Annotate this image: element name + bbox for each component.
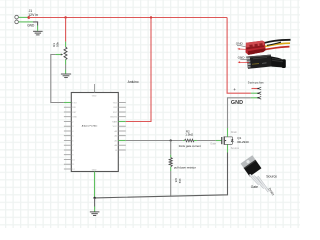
svg-text:GND: GND <box>92 169 97 171</box>
connector J2 3-pin pc fan pins <box>257 87 261 99</box>
right pin labels <box>110 102 118 152</box>
label R3 10k (rotated) <box>174 178 182 183</box>
node 12V junction dot <box>27 16 30 19</box>
label R1 50k (rotated) <box>52 41 60 46</box>
svg-text:RXI: RXI <box>72 107 76 109</box>
fan receptacle photo (black) <box>246 55 286 69</box>
left pin labels <box>72 102 77 171</box>
wire pot bottom to ground <box>65 60 67 65</box>
fan wires <box>263 40 291 43</box>
arrow red 1 <box>239 48 246 50</box>
svg-text:limits gate current: limits gate current <box>179 144 201 148</box>
drain lead <box>224 136 232 138</box>
label J1 / 12V in <box>28 9 38 17</box>
left pins <box>64 107 71 169</box>
svg-text:Gate: Gate <box>251 185 258 189</box>
wire pot wiper to Arduino A0 <box>51 55 64 103</box>
svg-text:GND: GND <box>238 55 246 59</box>
wire stub fan tach pin <box>252 88 258 90</box>
wire +12V rail <box>29 17 227 19</box>
svg-text:RST: RST <box>72 112 77 114</box>
svg-text:R3: R3 <box>174 178 178 182</box>
svg-text:GND: GND <box>27 24 35 28</box>
resistor R2 1.5k <box>183 139 197 142</box>
resistor R3 pull-down <box>169 141 172 197</box>
svg-text:GND: GND <box>236 41 244 45</box>
ground (pot) <box>61 74 71 78</box>
wire rail drop to fan + pin <box>227 18 251 94</box>
wire drain up to fan pin3 <box>227 128 229 137</box>
svg-text:10k: 10k <box>178 178 182 183</box>
svg-text:RAW: RAW <box>112 120 117 123</box>
gate bar <box>221 137 223 144</box>
svg-text:GND: GND <box>92 95 97 97</box>
right pins <box>118 103 126 151</box>
svg-text:RST: RST <box>113 112 118 114</box>
svg-text:GND: GND <box>231 100 243 106</box>
label Q1 IRL2940 <box>237 136 249 144</box>
wire RAW pin to rail (red) <box>118 121 126 123</box>
node rail-vcc junction <box>150 16 152 18</box>
svg-text:Source: Source <box>231 146 240 150</box>
svg-text:3-pin pc fan: 3-pin pc fan <box>248 81 264 85</box>
svg-text:+: + <box>233 87 236 92</box>
connector J1 (2-pin header) <box>15 15 19 23</box>
svg-text:GND: GND <box>72 117 77 119</box>
arrow red 2 <box>239 61 249 63</box>
label R2 1.5k <box>185 129 194 136</box>
node GND junction <box>93 197 95 199</box>
svg-text:1.5kΩ: 1.5kΩ <box>185 132 194 136</box>
svg-text:TXO: TXO <box>113 102 118 104</box>
svg-text:VCC: VCC <box>113 126 118 128</box>
wire source down <box>227 144 229 152</box>
svg-text:IRL2940: IRL2940 <box>237 140 249 144</box>
wire junction to ground symbol <box>94 198 96 207</box>
wiper arrow <box>55 54 61 56</box>
svg-text:50k: 50k <box>56 41 60 46</box>
channel bar <box>223 137 225 145</box>
wire J1 pin2 to GND <box>19 21 33 23</box>
ground (main) <box>90 212 100 216</box>
transistor photo TO-220 (IRL2940 package) <box>241 155 269 191</box>
red body <box>246 41 266 55</box>
gate lead <box>216 140 221 142</box>
svg-text:Gate: Gate <box>210 141 216 145</box>
labels MOSFET pins <box>210 130 239 150</box>
svg-text:pull-down resistor: pull-down resistor <box>174 165 196 169</box>
svg-text:Arduino: Arduino <box>128 80 139 84</box>
wire rail drop to potentiometer <box>65 18 67 42</box>
source lead <box>224 143 232 145</box>
node rail-pot junction <box>64 16 66 18</box>
ground (J1) <box>33 31 43 35</box>
wire J1 pin1 to rail (green) <box>19 16 28 18</box>
svg-text:RXI: RXI <box>114 107 118 109</box>
wire R2 to gate <box>197 140 216 142</box>
svg-text:GND5V: GND5V <box>110 117 118 119</box>
wire arduino GND pin down <box>94 172 96 198</box>
svg-text:Drain: Drain <box>231 130 238 134</box>
fan connector photo (red molex + wires) <box>246 40 291 55</box>
wire gate pin to R2 <box>118 140 126 142</box>
arrow <box>225 140 227 141</box>
svg-text:Source: Source <box>266 174 277 178</box>
body diode <box>231 137 233 139</box>
pin top GND <box>94 84 96 93</box>
svg-text:12V in: 12V in <box>28 13 38 17</box>
IC U1 Arduino Pro Mini <box>64 84 126 172</box>
svg-text:TXO: TXO <box>72 102 77 104</box>
transistor Q1 IRL2940 (N-MOSFET symbol) <box>216 137 233 145</box>
potentiometer R1 50k <box>55 47 67 60</box>
node R3 tap <box>170 139 172 141</box>
svg-text:Arduino Pro Mini: Arduino Pro Mini <box>82 124 98 127</box>
